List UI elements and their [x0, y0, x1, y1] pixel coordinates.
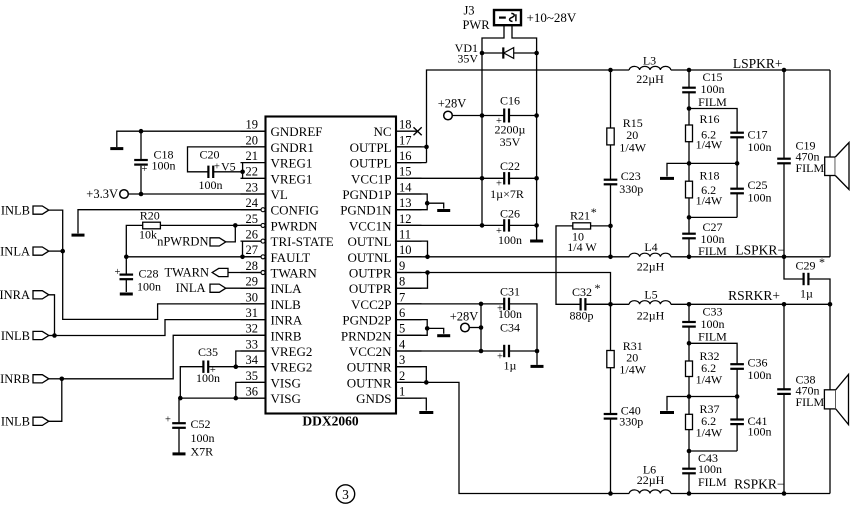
junction OUTPL tie [424, 145, 429, 150]
junction filter node B2 right [735, 394, 740, 399]
wire pin36 VISG line [180, 397, 265, 399]
svg-text:22µH: 22µH [637, 309, 665, 323]
svg-text:FILM: FILM [698, 244, 727, 258]
ground C34 gnd [531, 365, 544, 368]
svg-text:100n: 100n [498, 307, 522, 321]
wire R32 bottom lead [688, 377, 690, 397]
svg-text:35V: 35V [457, 52, 478, 66]
capacitor C40 plates [604, 413, 618, 415]
wire R31 to C40 [610, 368, 612, 414]
wire pin 1 stub [396, 397, 422, 399]
svg-text:J3: J3 [463, 4, 474, 18]
inductor L3 [629, 66, 671, 70]
junction INLA/INLB1 [60, 249, 65, 254]
junction C29 on RSRKR+ [828, 302, 833, 307]
wire INLB3 to junction [49, 379, 62, 422]
svg-text:*: * [595, 281, 601, 295]
svg-text:VREG1: VREG1 [271, 156, 313, 171]
junction C27 on LSPKR- [687, 254, 692, 259]
wire VCC2 rail [480, 304, 482, 351]
wire pin24 CONFIG to ground [78, 210, 261, 234]
capacitor C15 plates [682, 87, 696, 89]
svg-text:NC: NC [373, 124, 391, 139]
figure number 3 [336, 485, 354, 503]
svg-text:VREG2: VREG2 [271, 360, 313, 375]
wire pin 27 stub [241, 256, 262, 258]
junction C43 on RSPKR- [687, 491, 692, 496]
wire PGND2 to ground [427, 328, 444, 333]
svg-text:18: 18 [399, 118, 412, 132]
svg-text:10: 10 [399, 243, 412, 257]
svg-text:*: * [591, 205, 597, 219]
wire right gnd rail [536, 53, 538, 240]
svg-text:CONFIG: CONFIG [271, 203, 319, 218]
wire pin1 GNDS to ground [396, 398, 426, 411]
capacitor C33 plates [682, 321, 696, 323]
wire C18 leads [140, 131, 142, 194]
wire RSPKR- line [611, 493, 831, 495]
wire pin 22 stub [241, 177, 266, 179]
wire pin 16 stub [396, 162, 422, 164]
wire node D tie [689, 216, 737, 218]
svg-text:GNDR1: GNDR1 [271, 140, 314, 155]
ground PGND1 [437, 209, 450, 212]
wire INLB2 to junction [49, 335, 55, 337]
capacitor C20 plates [207, 166, 209, 178]
svg-text:19: 19 [246, 118, 259, 132]
ground rail gnd [530, 240, 543, 243]
junction TRI-STATE/FAULT [240, 254, 245, 259]
svg-text:OUTPR: OUTPR [349, 281, 392, 296]
wire C41 leads [736, 397, 738, 452]
wire node B2 to ground [667, 397, 689, 411]
wire pin 8 stub [396, 287, 422, 289]
capacitor C16 plates [503, 109, 505, 123]
wire C38 leads [783, 304, 785, 493]
svg-text:35: 35 [246, 369, 259, 383]
svg-text:INRA: INRA [271, 313, 303, 328]
ground GNDREF [110, 147, 123, 150]
junction INLB2/INRA [52, 333, 57, 338]
wire VD1 leads [482, 52, 537, 54]
svg-text:FILM: FILM [796, 161, 825, 175]
wire C27 leads [688, 217, 690, 256]
wire left +28V rail [481, 53, 483, 225]
wire node B2 tie [689, 396, 737, 398]
resistor R31 body [607, 351, 614, 368]
svg-text:R21: R21 [570, 209, 590, 223]
wire FAULT line pin27 [126, 256, 261, 258]
junction +28V tap [479, 325, 484, 330]
connector J3 PWR body [494, 10, 521, 25]
svg-text:100n: 100n [191, 431, 215, 445]
wire C52 leads [179, 398, 180, 452]
wire C34 to ground [536, 351, 538, 365]
svg-text:PGND1N: PGND1N [340, 203, 392, 218]
wire nPWRDN to pin25 [226, 225, 235, 242]
svg-text:16: 16 [399, 149, 412, 163]
wire R18 top lead [688, 163, 690, 181]
wire +3.3V to pin23 VL [128, 193, 265, 195]
svg-text:INLB: INLB [271, 297, 302, 312]
svg-text:32: 32 [246, 322, 259, 336]
svg-text:1/4W: 1/4W [696, 137, 723, 151]
svg-text:1/4W: 1/4W [696, 426, 723, 440]
junction C38 top [782, 302, 787, 307]
inductor L6 [629, 490, 671, 494]
svg-text:17: 17 [399, 133, 412, 147]
svg-text:INLB: INLB [1, 203, 30, 217]
wire C17 to node B [736, 137, 738, 163]
wire pin 24 stub [241, 209, 262, 211]
svg-text:R20: R20 [140, 209, 160, 223]
wire pin 12 stub [396, 224, 422, 226]
wire R31 top lead [610, 304, 612, 350]
wire pins6-5 PGND2 tie [396, 320, 427, 336]
node +28V terminal lower [461, 323, 470, 332]
svg-text:C35: C35 [198, 345, 218, 359]
svg-text:12: 12 [399, 212, 412, 226]
wire pin12 VCC1N via C26 [396, 224, 537, 226]
wire pin8 OUTPR tie [396, 273, 428, 289]
wire pin 30 stub [241, 303, 266, 305]
junction filter node B [687, 161, 692, 166]
wire node A to C17 [689, 109, 737, 133]
junction C33 top [687, 302, 692, 307]
wire pin 15 stub [396, 177, 422, 179]
svg-text:LSPKR−: LSPKR− [735, 242, 785, 257]
svg-text:R16: R16 [699, 112, 719, 126]
wire OUTNL to LSPKR- left segment [396, 256, 611, 258]
wire pin 2 stub [396, 381, 422, 383]
inductor L4 [629, 253, 671, 257]
wire R37 bottom lead [688, 430, 690, 451]
wire C25 leads [736, 163, 738, 217]
wire PGND1 to ground [427, 203, 444, 208]
wire INLA to junction [49, 250, 63, 252]
svg-text:C20: C20 [199, 147, 219, 161]
svg-text:23: 23 [246, 180, 259, 194]
svg-text:INRA: INRA [0, 288, 30, 302]
svg-text:1/4W: 1/4W [696, 373, 723, 387]
wire INLB1+INLA to pin30 INLB [49, 210, 266, 319]
wire J3 pin+ to right rail [512, 25, 537, 53]
wire right speaker top rail [829, 304, 831, 390]
svg-text:R18: R18 [699, 169, 719, 183]
wire pin33 VREG2 tie [236, 351, 266, 367]
wire pin25 PWRDN line [160, 224, 261, 226]
svg-text:L4: L4 [644, 240, 657, 254]
svg-text:6: 6 [399, 306, 405, 320]
wire pin 10 stub [396, 256, 422, 258]
node connector input INLA [33, 247, 49, 255]
svg-text:7: 7 [399, 290, 405, 304]
wire INRA to pin31 [49, 295, 266, 336]
wire C32 right lead [586, 303, 611, 305]
node connector input INLB [33, 331, 49, 339]
pin 27 inverting circle [261, 255, 265, 259]
svg-text:100n: 100n [199, 178, 223, 192]
svg-text:1/4W: 1/4W [619, 363, 646, 377]
capacitor C36 plates [730, 363, 744, 365]
IC U1 DDX2060 body [266, 117, 397, 414]
wire pin3 OUTNR tie [396, 367, 426, 383]
capacitor C25 plates [730, 188, 744, 190]
svg-text:OUTNL: OUTNL [347, 234, 391, 249]
svg-text:29: 29 [246, 275, 259, 289]
svg-text:RSPKR−: RSPKR− [734, 477, 784, 492]
svg-text:VCC1P: VCC1P [351, 171, 391, 186]
wire +28V to rail [452, 115, 482, 117]
junction C19/C29 on LSPKR- [782, 254, 787, 259]
wire R16 top lead [688, 109, 690, 126]
svg-text:L5: L5 [644, 288, 657, 302]
wire R21 left to C32 [556, 226, 580, 304]
junction pins35-36 [234, 396, 239, 401]
wire pin 19 stub [241, 130, 266, 132]
svg-text:+10~28V: +10~28V [527, 10, 577, 25]
svg-text:14: 14 [399, 180, 412, 194]
capacitor C34 plates [503, 345, 505, 357]
svg-text:FILM: FILM [698, 329, 727, 343]
junction C16 left [480, 113, 485, 118]
svg-text:INLB: INLB [1, 415, 30, 429]
svg-text:10k: 10k [139, 227, 157, 241]
wire pin7 VCC2P via C31 [396, 304, 537, 351]
svg-text:PWR: PWR [462, 18, 490, 32]
wire node B tie [689, 162, 737, 164]
wire pin 11 stub [396, 240, 422, 242]
svg-text:+: + [214, 161, 220, 172]
wire pin 21 stub [241, 162, 266, 164]
svg-text:VCC2P: VCC2P [351, 297, 391, 312]
svg-text:5: 5 [399, 322, 405, 336]
wire INRB stub [49, 378, 62, 380]
svg-text:100n: 100n [498, 233, 522, 247]
svg-text:22µH: 22µH [636, 72, 664, 86]
svg-text:PRND2N: PRND2N [341, 328, 392, 343]
svg-text:15: 15 [399, 165, 412, 179]
wire pin 7 stub [396, 303, 422, 305]
capacitor C43 plates [682, 468, 696, 470]
capacitor C23 plates [604, 179, 618, 181]
svg-text:VCC1N: VCC1N [349, 218, 392, 233]
svg-text:TWARN: TWARN [165, 265, 209, 279]
wire pin 9 stub [396, 272, 422, 274]
svg-text:FAULT: FAULT [271, 250, 311, 265]
junction C22 rail right [534, 176, 539, 181]
svg-text:INLB: INLB [1, 329, 30, 343]
wire J3 pin- to left rail [482, 25, 504, 53]
node connector TWARN [212, 268, 228, 276]
resistor R18 body [686, 181, 693, 198]
junction C34 right [535, 349, 540, 354]
svg-text:1: 1 [399, 385, 405, 399]
ground GNDS [419, 411, 433, 414]
svg-text:C31: C31 [500, 284, 520, 298]
junction INRB/INLB3 [60, 377, 65, 382]
svg-text:100n: 100n [748, 424, 772, 438]
svg-text:11: 11 [399, 228, 411, 242]
svg-text:34: 34 [246, 353, 259, 367]
junction C15 top [687, 68, 692, 73]
junction OUTPR tie [425, 270, 430, 275]
wire right speaker bottom rail [829, 409, 831, 494]
ground C52 gnd [173, 452, 186, 455]
wire pin 23 stub [241, 193, 266, 195]
svg-text:+: + [497, 352, 503, 363]
svg-text:1/4W: 1/4W [696, 194, 723, 208]
svg-text:C26: C26 [500, 206, 520, 220]
junction C22 rail left [480, 176, 485, 181]
capacitor C18 plates [134, 159, 148, 161]
wire R18 bottom lead [688, 198, 690, 218]
wire pin 20 stub [241, 146, 266, 148]
svg-text:3: 3 [399, 353, 405, 367]
capacitor C28 plates [120, 274, 134, 276]
svg-text:21: 21 [246, 149, 259, 163]
svg-text:LSPKR+: LSPKR+ [733, 56, 783, 71]
svg-text:24: 24 [246, 196, 259, 210]
wire left speaker top rail [829, 70, 831, 157]
pin 26 inverting circle [261, 239, 265, 243]
svg-text:1µ: 1µ [800, 287, 813, 301]
svg-text:FILM: FILM [796, 395, 825, 409]
junction R15 top [608, 68, 613, 73]
svg-text:C32: C32 [572, 285, 592, 299]
wire pin 34 stub [241, 366, 266, 368]
wire pin 32 stub [241, 334, 266, 336]
ground filter bottom [660, 411, 674, 414]
wire C15 leads [688, 70, 690, 109]
svg-text:100n: 100n [748, 140, 772, 154]
junction filter node D2 [687, 449, 692, 454]
junction filter node A [687, 106, 692, 111]
wire node D2 tie [689, 450, 737, 452]
svg-text:OUTNR: OUTNR [347, 360, 392, 375]
wire C16 leads [482, 115, 537, 117]
svg-text:26: 26 [246, 228, 259, 242]
svg-text:30: 30 [246, 290, 259, 304]
svg-text:FILM: FILM [698, 95, 727, 109]
junction chain on LSPKR- [608, 254, 613, 259]
svg-text:+: + [142, 164, 148, 175]
svg-text:C34: C34 [500, 321, 520, 335]
junction C18 bottom on VL line [139, 192, 144, 197]
svg-text:+28V: +28V [450, 309, 479, 323]
svg-text:22: 22 [246, 165, 259, 179]
wire pin 3 stub [396, 366, 422, 368]
wire R15 to C23 [610, 145, 612, 180]
node connector input INLB [33, 206, 49, 214]
wire node A2 to C36 [689, 343, 737, 364]
svg-text:X7R: X7R [191, 445, 214, 459]
svg-text:C52: C52 [191, 417, 211, 431]
capacitor C29 plates [802, 273, 804, 285]
resistor R37 body [686, 414, 693, 429]
svg-text:VISG: VISG [271, 391, 301, 406]
wire C36 to node B2 [736, 369, 738, 397]
wire pin19 GNDREF to ground [117, 131, 266, 147]
connector J3 polarity marks [499, 17, 506, 19]
wire TWARN to pin28 [228, 272, 261, 274]
wire pin2 OUTNR down to RSPKR- line [396, 382, 611, 493]
svg-text:2: 2 [399, 369, 405, 383]
wire R20 left to FAULT line [126, 225, 142, 256]
junction VD1 cathode rail [534, 51, 539, 56]
wire C29 path [784, 257, 830, 305]
wire C43 leads [688, 451, 690, 494]
svg-text:V5: V5 [221, 160, 236, 174]
wire left speaker bottom rail [829, 176, 831, 257]
junction OUTNR tie [424, 380, 429, 385]
junction nPWRDN/R20 on PWRDN [233, 223, 238, 228]
wire pin 26 stub [241, 240, 262, 242]
svg-text:OUTPL: OUTPL [350, 156, 392, 171]
svg-text:INLA: INLA [176, 281, 206, 295]
wire OUTPL pins16-17 to L3 line [396, 70, 830, 163]
ground filter top [660, 177, 674, 180]
svg-text:OUTNR: OUTNR [347, 375, 392, 390]
svg-text:13: 13 [399, 196, 412, 210]
svg-text:PWRDN: PWRDN [271, 218, 319, 233]
svg-text:C16: C16 [500, 94, 520, 108]
capacitor C19 plates [777, 158, 791, 160]
svg-text:INLA: INLA [271, 281, 303, 296]
svg-text:330p: 330p [619, 182, 643, 196]
svg-text:GNDREF: GNDREF [271, 124, 323, 139]
svg-text:OUTNL: OUTNL [347, 250, 391, 265]
wire pin15 VCC1P via C22 [396, 177, 537, 179]
svg-text:VL: VL [271, 187, 288, 202]
resistor R21 body [573, 223, 591, 229]
wire pin 31 stub [241, 319, 266, 321]
svg-text:1/4 W: 1/4 W [567, 240, 597, 254]
junction C40 on RSPKR- [608, 491, 613, 496]
svg-text:GNDS: GNDS [356, 391, 391, 406]
wire R16 bottom lead [688, 142, 690, 164]
wire pin 29 stub [241, 287, 266, 289]
wire pin35 VISG tie [236, 382, 266, 398]
junction C35/C52/VISG [178, 396, 183, 401]
NC mark X on pin 18 [414, 127, 422, 135]
junction C16 right [534, 113, 539, 118]
resistor R16 body [686, 125, 693, 142]
svg-text:RSRKR+: RSRKR+ [728, 288, 780, 303]
wire pin 13 stub [396, 209, 422, 211]
svg-text:TWARN: TWARN [271, 266, 318, 281]
junction C38 on RSPKR- [782, 491, 787, 496]
junction filter node D [687, 215, 692, 220]
wire pin 25 stub [241, 224, 262, 226]
svg-text:1µ: 1µ [504, 359, 517, 373]
wire pin 28 stub [241, 272, 262, 274]
resistor R15 body [607, 128, 614, 145]
svg-text:100n: 100n [748, 190, 772, 204]
wire C33 leads [688, 304, 690, 343]
junction C19 top [782, 68, 787, 73]
svg-text:C22: C22 [500, 159, 520, 173]
wire pin 6 stub [396, 319, 422, 321]
junction PGND1 gnd tap [425, 201, 430, 206]
wire pins14-13 PGND1 tie [396, 194, 427, 210]
svg-text:VCC2N: VCC2N [349, 344, 392, 359]
svg-text:36: 36 [246, 385, 259, 399]
wire R21 right lead [591, 225, 611, 227]
svg-text:33: 33 [246, 337, 259, 351]
svg-text:+28V: +28V [438, 96, 467, 110]
svg-text:28: 28 [246, 259, 259, 273]
